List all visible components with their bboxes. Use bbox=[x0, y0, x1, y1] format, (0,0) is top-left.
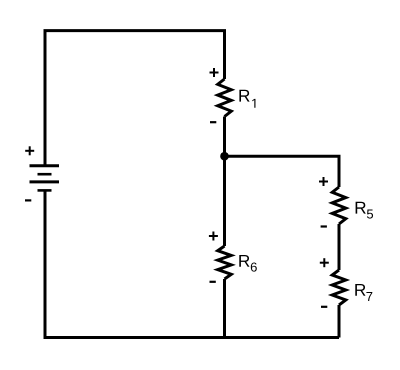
resistor R6 bbox=[218, 246, 232, 279]
R6 - sign bbox=[210, 281, 216, 283]
battery B1 bbox=[30, 166, 60, 191]
wire: R5 bottom to R7 top bbox=[338, 224, 341, 270]
R5 label bbox=[356, 202, 373, 219]
resistor R7 bbox=[332, 270, 346, 305]
R1 label bbox=[239, 90, 255, 108]
R6 label bbox=[239, 255, 256, 272]
wire: R7 bottom to bottom rail bbox=[338, 305, 341, 338]
battery + sign bbox=[25, 146, 34, 155]
R6 + sign bbox=[209, 232, 218, 241]
R7 - sign bbox=[321, 306, 327, 308]
wire: battery + up, top rail, down to R1 top bbox=[45, 31, 225, 166]
resistor R1 bbox=[218, 79, 232, 117]
node A junction dot bbox=[220, 152, 229, 161]
wire: R6 bottom to bottom rail bbox=[223, 279, 226, 339]
R1 - sign bbox=[210, 121, 216, 123]
R1 + sign bbox=[210, 68, 219, 77]
wire: R1 bottom through node A to R6 top bbox=[223, 117, 226, 247]
battery - sign bbox=[25, 199, 31, 201]
R5 - sign bbox=[321, 225, 327, 227]
R7 + sign bbox=[320, 258, 329, 267]
resistor R5 bbox=[332, 187, 346, 224]
R5 + sign bbox=[319, 177, 328, 186]
R7 label bbox=[355, 284, 372, 301]
wire: node A to right branch, down to R5 top bbox=[225, 156, 340, 187]
wire: battery - down, bottom rail to right branch bbox=[45, 190, 339, 337]
